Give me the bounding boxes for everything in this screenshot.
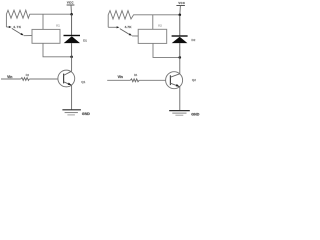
wire switch to box (right)	[132, 35, 138, 37]
wire switch to box (left)	[24, 35, 32, 37]
transistor Q2 collector diagonal	[170, 74, 179, 77]
svg-text:GND: GND	[191, 112, 199, 116]
transistor Q1 collector diagonal	[64, 71, 72, 75]
svg-text:Q2: Q2	[192, 78, 196, 82]
svg-text:D1: D1	[83, 38, 87, 42]
wire switch stub (right)	[108, 26, 117, 28]
ground symbol (right)	[169, 110, 190, 112]
box K2 (right)	[138, 29, 167, 43]
svg-text:Vin: Vin	[7, 75, 12, 79]
wire input (right)	[107, 79, 130, 81]
transistor Q2 base bar	[169, 75, 171, 85]
svg-text:K1: K1	[56, 24, 60, 28]
svg-text:VCC: VCC	[178, 1, 185, 5]
switch S1 contact arrowhead (left)	[9, 26, 12, 28]
switch S2 blade arrowhead (right)	[129, 33, 132, 36]
wire collector (right)	[179, 57, 181, 73]
junction node collector/diode (right)	[179, 56, 182, 59]
diode D1 triangle	[64, 36, 80, 43]
switch S1 blade (left)	[12, 28, 22, 34]
svg-text:K2: K2	[158, 24, 162, 28]
diode D2 triangle	[172, 37, 188, 43]
wire box top pin (left)	[42, 14, 44, 29]
wire base (right)	[139, 79, 165, 81]
wire input (left)	[1, 78, 21, 80]
wire VCC stem (right)	[179, 6, 182, 15]
svg-text:Q1: Q1	[81, 80, 85, 84]
transistor Q2 circle	[166, 72, 183, 89]
wire diode top (right)	[179, 15, 181, 36]
diode D2 cathode bar	[172, 35, 188, 36]
switch S2 contact arrowhead (right)	[117, 26, 120, 28]
svg-text:4.7K: 4.7K	[125, 25, 133, 29]
junction node collector/diode (left)	[70, 56, 73, 59]
box K1 (left)	[32, 29, 60, 43]
resistor R2 zigzag (left)	[21, 78, 30, 81]
wire diode top (left)	[71, 14, 73, 35]
junction node rail/VCC (left)	[70, 13, 73, 16]
wire collector (left)	[71, 57, 73, 71]
svg-text:VCC: VCC	[67, 1, 74, 5]
wire emitter to ground (left)	[71, 85, 73, 109]
svg-text:Vin: Vin	[118, 75, 123, 79]
svg-text:4.7K: 4.7K	[13, 25, 22, 29]
power VCC bar (left)	[67, 4, 75, 6]
transistor Q1 base bar	[63, 74, 65, 84]
ground symbol (left)	[62, 109, 81, 111]
switch S2 blade (right)	[120, 29, 130, 35]
transistor Q1 emitter arrowhead	[68, 83, 72, 86]
diode D1 cathode bar	[64, 35, 81, 36]
transistor Q2 emitter arrowhead	[176, 84, 180, 87]
wire switch stub (left)	[6, 26, 9, 28]
transistor Q1 emitter diagonal	[64, 82, 72, 85]
wire diode bottom (left)	[71, 43, 73, 57]
wire emitter to ground (right)	[179, 87, 181, 111]
wire box top pin (right)	[152, 15, 154, 29]
transistor Q2 emitter diagonal	[170, 83, 179, 87]
wire box bottom pin (right)	[153, 43, 180, 57]
junction node rail/VCC (right)	[179, 14, 182, 17]
wire VCC stem (left)	[70, 5, 73, 14]
wire diode bottom (right)	[179, 43, 181, 57]
switch S1 blade arrowhead (left)	[21, 33, 24, 36]
wire box bottom pin (left)	[43, 43, 72, 57]
resistor R3 zigzag and rail wire (right)	[108, 11, 180, 28]
svg-text:D2: D2	[191, 38, 195, 42]
svg-text:GND: GND	[82, 112, 90, 116]
resistor R1 zigzag and rail wire (left)	[6, 10, 71, 27]
wire base (left)	[29, 78, 58, 80]
power VCC bar (right)	[176, 5, 185, 7]
resistor R4 zigzag (right)	[130, 79, 139, 82]
transistor Q1 circle	[58, 70, 75, 87]
